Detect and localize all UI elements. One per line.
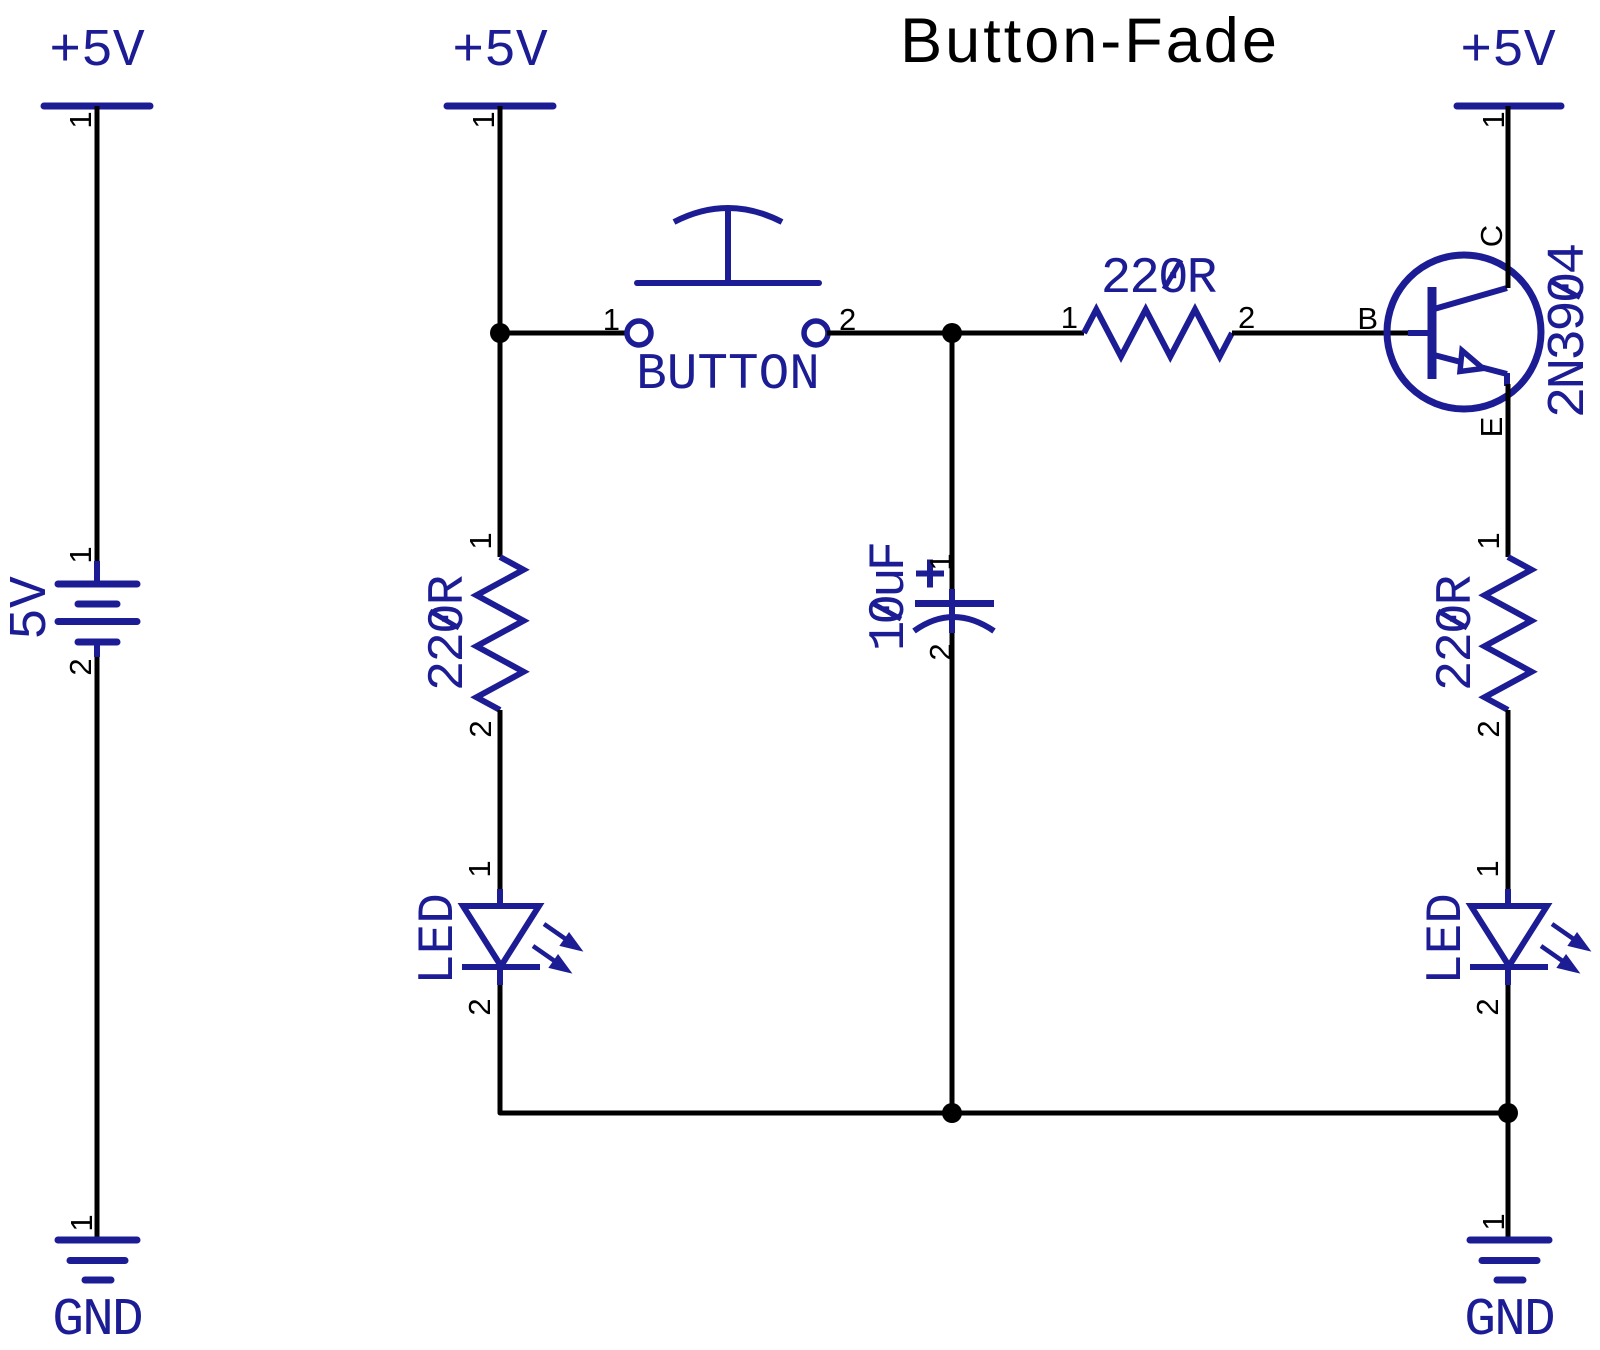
wire supply3 to transistor collector xyxy=(1506,106,1511,288)
wire resistor R1 pin2 to transistor base xyxy=(1232,331,1410,336)
junction node at capacitor bottom xyxy=(942,1103,962,1123)
capacitor C1 value 10uF xyxy=(862,543,919,651)
svg-text:+5V: +5V xyxy=(452,21,548,81)
LED D1 arrows xyxy=(533,924,578,970)
svg-text:220R: 220R xyxy=(1101,251,1217,308)
svg-text:1: 1 xyxy=(462,860,497,877)
ground GND2 xyxy=(1470,1240,1549,1280)
svg-text:10uF: 10uF xyxy=(862,543,919,651)
svg-text:LED: LED xyxy=(1419,893,1476,985)
power +5V supply1 bar xyxy=(44,103,150,110)
svg-text:1: 1 xyxy=(1061,300,1078,335)
svg-text:1: 1 xyxy=(466,111,501,128)
power +5V supply3 bar xyxy=(1457,103,1561,110)
resistor R1 value 220R xyxy=(1101,251,1217,308)
svg-text:220R: 220R xyxy=(421,575,478,691)
svg-text:2: 2 xyxy=(1238,300,1255,335)
junction node bottom right xyxy=(1498,1103,1518,1123)
svg-text:1: 1 xyxy=(63,546,98,563)
svg-text:1: 1 xyxy=(63,111,98,128)
wire LED D1 to bottom rail xyxy=(500,985,1508,1113)
wire button S1 pin2 to junction xyxy=(827,331,952,336)
svg-text:1: 1 xyxy=(1470,860,1505,877)
svg-text:+5V: +5V xyxy=(1460,21,1556,81)
svg-text:+5V: +5V xyxy=(49,21,145,81)
LED D2 arrows xyxy=(1541,924,1586,970)
wire battery BAT1 pin2 to GND1 xyxy=(95,657,100,1242)
svg-text:2: 2 xyxy=(1470,998,1505,1015)
svg-text:C: C xyxy=(1474,225,1509,247)
svg-text:1: 1 xyxy=(1476,1213,1511,1230)
svg-text:220R: 220R xyxy=(1429,575,1486,691)
svg-text:2: 2 xyxy=(462,998,497,1015)
wire junction to resistor R1 pin1 xyxy=(952,331,1084,336)
wire transistor emitter to resistor R3 xyxy=(1506,384,1511,557)
transistor Q1 2N3904 xyxy=(1387,255,1541,409)
wire LED D2 to ground rail xyxy=(1506,985,1511,1242)
resistor R1 220R horizontal xyxy=(1084,310,1232,357)
ground GND1 xyxy=(58,1240,137,1280)
wire junction to capacitor C1 xyxy=(950,333,955,589)
wire supply2 down to resistor R2 xyxy=(498,106,503,557)
svg-text:2: 2 xyxy=(63,658,98,675)
svg-text:1: 1 xyxy=(463,532,498,549)
svg-text:2: 2 xyxy=(1471,720,1506,737)
svg-text:2: 2 xyxy=(463,720,498,737)
junction node at capacitor branch xyxy=(942,323,962,343)
capacitor C1 10uF polarized xyxy=(914,560,994,634)
junction node at button branch xyxy=(490,323,510,343)
wire capacitor C1 to bottom rail xyxy=(950,633,955,1113)
LED D2 xyxy=(1470,889,1548,985)
wire resistor R2 to LED D1 xyxy=(498,710,503,889)
resistor R2 value 220R xyxy=(421,575,478,691)
power +5V supply2 bar xyxy=(447,103,553,110)
transistor Q1 value 2N3904 xyxy=(1539,244,1599,418)
svg-text:B: B xyxy=(1357,301,1378,336)
svg-text:Button-Fade: Button-Fade xyxy=(900,6,1280,76)
svg-text:5V: 5V xyxy=(1,576,61,640)
svg-text:1: 1 xyxy=(603,302,620,337)
LED D1 xyxy=(462,889,540,985)
resistor R3 220R vertical right xyxy=(1485,557,1532,710)
battery BAT1 xyxy=(58,561,137,657)
resistor R2 220R vertical left xyxy=(477,557,524,710)
button S1 xyxy=(627,208,828,345)
svg-text:GND: GND xyxy=(52,1290,142,1350)
svg-text:LED: LED xyxy=(411,893,468,985)
svg-text:BUTTON: BUTTON xyxy=(636,347,820,404)
svg-text:GND: GND xyxy=(1464,1290,1554,1350)
wire resistor R3 to LED D2 xyxy=(1506,710,1511,889)
svg-text:E: E xyxy=(1474,417,1509,438)
svg-text:2N3904: 2N3904 xyxy=(1539,244,1599,418)
svg-text:1: 1 xyxy=(923,553,958,570)
resistor R3 value 220R xyxy=(1429,575,1486,691)
wire supply1 to battery BAT1 pin1 xyxy=(95,106,100,561)
svg-text:1: 1 xyxy=(64,1214,99,1231)
svg-text:1: 1 xyxy=(1471,532,1506,549)
wire junction to button S1 pin1 xyxy=(500,331,628,336)
